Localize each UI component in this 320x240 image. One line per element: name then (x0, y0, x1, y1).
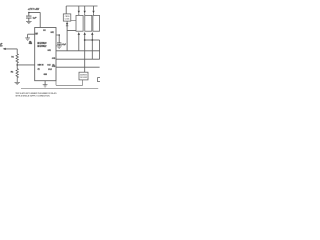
svg-text:R1: R1 (11, 56, 13, 58)
svg-text:SCLK: SCLK (47, 64, 51, 66)
svg-text:ADDRESS: ADDRESS (80, 73, 87, 76)
svg-text:LOGIC: LOGIC (65, 18, 70, 20)
svg-text:OUT5: OUT5 (52, 58, 55, 60)
svg-text:DIN IN: DIN IN (38, 65, 45, 67)
svg-text:OUT2: OUT2 (48, 50, 51, 52)
svg-text:DECODER: DECODER (80, 77, 87, 79)
svg-text:R2: R2 (11, 71, 13, 73)
svg-text:MAX4822: MAX4822 (37, 45, 47, 48)
svg-text:GND: GND (44, 74, 48, 76)
svg-text:WITH A SINGLE SUPPLY CONNECTIO: WITH A SINGLE SUPPLY CONNECTION. (16, 95, 51, 98)
svg-text:SCLK: SCLK (48, 69, 52, 71)
svg-text:10k: 10k (29, 42, 32, 44)
svg-text:+2.7V TO +5.5V: +2.7V TO +5.5V (28, 9, 40, 11)
svg-text:OUT1: OUT1 (51, 32, 54, 34)
